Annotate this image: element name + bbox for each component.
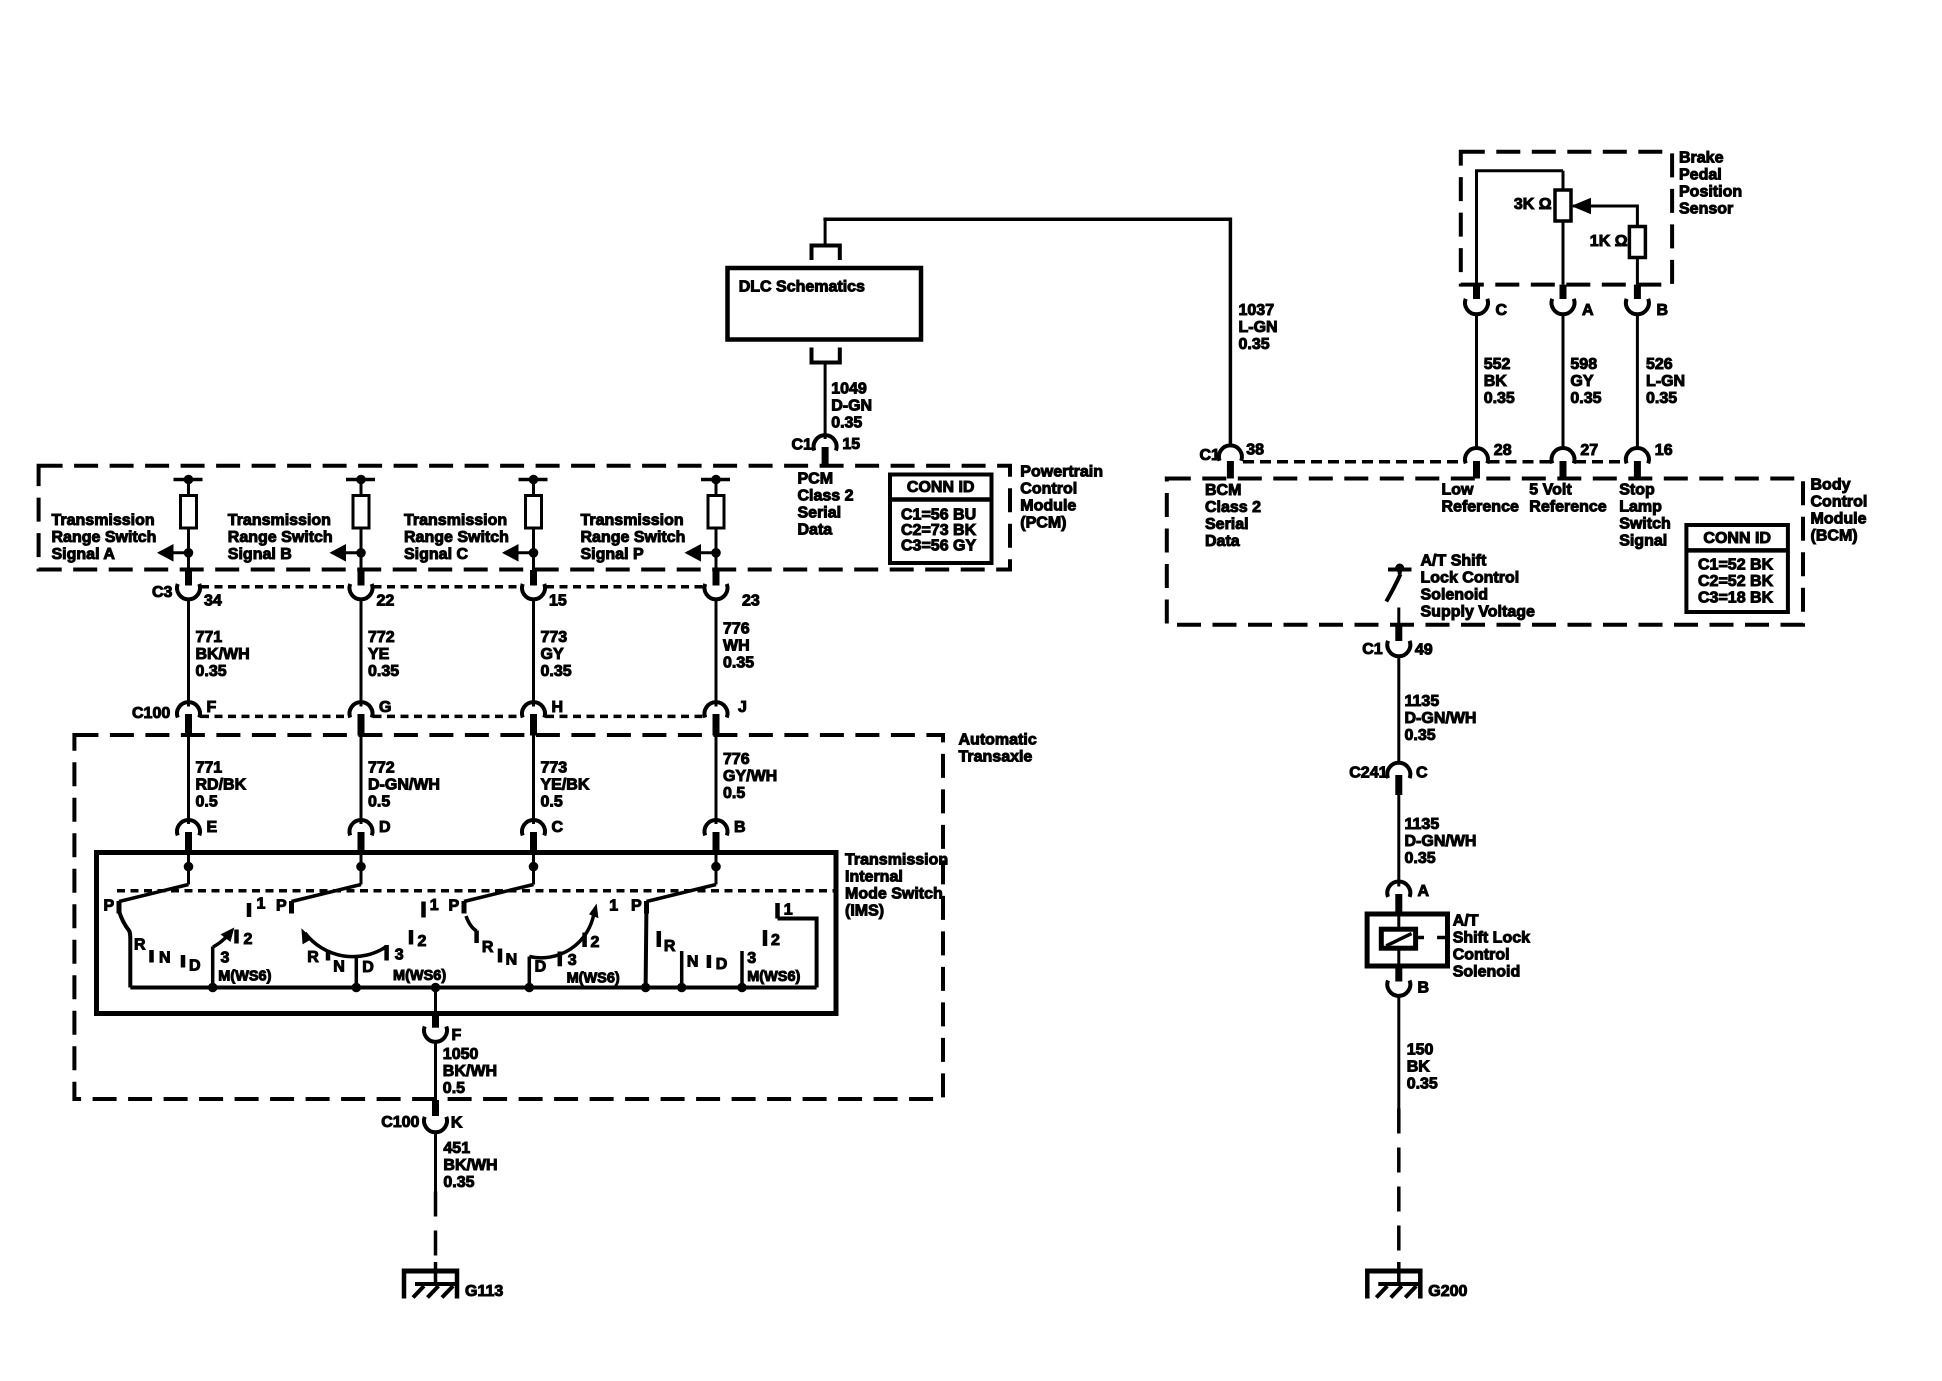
- svg-text:YE/BK: YE/BK: [541, 777, 590, 794]
- label: switch 1 contact 2: [234, 930, 239, 944]
- svg-text:Transmission: Transmission: [404, 512, 507, 529]
- svg-text:P: P: [631, 898, 642, 915]
- wire 773 YE/BK 0.5, C100 to IMS pin C: [532, 736, 535, 825]
- connector C1 pin 28 (BCM): [1465, 448, 1488, 463]
- label: switch 4 position D: [707, 955, 712, 968]
- svg-text:0.5: 0.5: [196, 794, 218, 811]
- svg-text:0.35: 0.35: [1484, 390, 1515, 407]
- svg-text:F: F: [452, 1027, 462, 1044]
- wire 451 BK/WH 0.35, C100 K to ground: [434, 1131, 437, 1192]
- svg-text:Mode Switch: Mode Switch: [845, 886, 943, 903]
- svg-text:Body: Body: [1811, 477, 1851, 494]
- svg-text:D: D: [189, 958, 201, 975]
- svg-text:Powertrain: Powertrain: [1020, 464, 1103, 481]
- svg-text:A: A: [1582, 302, 1594, 319]
- svg-text:C241: C241: [1349, 765, 1387, 782]
- svg-text:772: 772: [368, 760, 395, 777]
- resistor 3K ohm: [1555, 190, 1571, 221]
- module box: Automatic Transaxle, dashed border: [74, 735, 943, 1099]
- svg-text:Supply Voltage: Supply Voltage: [1421, 604, 1535, 621]
- svg-text:526: 526: [1646, 356, 1673, 373]
- connector C100 pin J: [705, 702, 728, 717]
- svg-text:Module: Module: [1811, 511, 1867, 528]
- svg-text:BK: BK: [1484, 373, 1508, 390]
- svg-text:(BCM): (BCM): [1811, 528, 1858, 545]
- wire 1050 BK/WH 0.5, pin F to C100 K: [434, 1041, 437, 1101]
- svg-text:3: 3: [221, 950, 230, 967]
- svg-text:M(WS6): M(WS6): [567, 970, 620, 986]
- connector C1 pin 15 (PCM): [814, 435, 837, 450]
- svg-text:C1: C1: [1199, 447, 1220, 464]
- wire 598 GY 0.35, pin A to BCM 27: [1562, 313, 1565, 449]
- node: PCM internal tie bar, signal B: [346, 478, 375, 482]
- svg-text:Range Switch: Range Switch: [404, 529, 509, 546]
- connector C1 pin 27 (BCM): [1552, 448, 1575, 463]
- svg-text:2: 2: [418, 933, 427, 950]
- switch 1 travel arc: [213, 935, 228, 947]
- connector C3 pin 22: [358, 570, 365, 586]
- svg-text:L-GN: L-GN: [1239, 319, 1278, 336]
- label: switch 2 contact 3: [384, 945, 389, 961]
- svg-text:28: 28: [1494, 442, 1512, 459]
- arrow: Transmission Range Switch Signal P (points left): [687, 551, 716, 554]
- svg-text:C1=56 BU: C1=56 BU: [901, 507, 976, 524]
- wire: bus to IMS pin F: [434, 988, 437, 1014]
- arrow: Transmission Range Switch Signal B (points left): [332, 551, 361, 554]
- svg-text:Solenoid: Solenoid: [1453, 964, 1521, 981]
- svg-text:34: 34: [204, 593, 222, 610]
- wire 776 GY/WH 0.5, C100 to IMS pin B: [715, 736, 718, 825]
- svg-text:B: B: [1418, 980, 1430, 997]
- svg-text:L-GN: L-GN: [1646, 373, 1685, 390]
- svg-text:15: 15: [842, 436, 860, 453]
- svg-text:0.5: 0.5: [723, 785, 745, 802]
- svg-text:2: 2: [244, 931, 253, 948]
- svg-text:Range Switch: Range Switch: [581, 529, 686, 546]
- svg-text:3: 3: [568, 952, 577, 969]
- wire: resistor to PCM border, signal P: [715, 528, 718, 570]
- node: PCM internal tie bar, signal A: [174, 478, 203, 482]
- junction: IMS bus to pin F: [431, 983, 440, 992]
- svg-text:Brake: Brake: [1679, 150, 1724, 167]
- svg-text:BK/WH: BK/WH: [196, 646, 250, 663]
- component box: A/T Shift Lock Control Solenoid: [1367, 914, 1447, 966]
- svg-text:1037: 1037: [1239, 302, 1275, 319]
- svg-text:3: 3: [747, 950, 756, 967]
- svg-text:DLC Schematics: DLC Schematics: [739, 279, 865, 296]
- wire 1135 D-GN/WH 0.35, BCM C1 49 to C241 C: [1397, 655, 1400, 764]
- svg-text:(IMS): (IMS): [845, 903, 884, 920]
- svg-text:C: C: [1496, 302, 1508, 319]
- wire 773 GY 0.35, C3 to C100: [532, 599, 535, 707]
- svg-text:0.5: 0.5: [443, 1080, 465, 1097]
- svg-text:Lock Control: Lock Control: [1421, 570, 1520, 587]
- svg-text:598: 598: [1570, 356, 1597, 373]
- svg-text:C1: C1: [792, 437, 813, 454]
- ground G200: [1397, 1262, 1401, 1284]
- switch: IMS contact 4 (pin B), wiper at P to bus: [712, 862, 721, 871]
- resistor: Transmission Range Switch Signal C pull-up: [526, 496, 542, 529]
- svg-text:773: 773: [541, 629, 568, 646]
- wire: PCM internal, bar to resistor P: [715, 480, 718, 497]
- svg-text:B: B: [1657, 302, 1669, 319]
- node: PCM internal tie bar, signal P: [701, 478, 730, 482]
- wire: shift lock switch to BCM border: [1397, 608, 1400, 626]
- label: switch 1 contact 1: [247, 903, 252, 917]
- svg-text:772: 772: [368, 629, 395, 646]
- svg-text:C3=18 BK: C3=18 BK: [1698, 590, 1774, 607]
- svg-text:Signal B: Signal B: [228, 546, 292, 563]
- svg-text:150: 150: [1407, 1042, 1434, 1059]
- connector C1 pin 16 (BCM): [1626, 448, 1649, 463]
- svg-text:Class 2: Class 2: [1205, 499, 1261, 516]
- connector: solenoid pin A: [1387, 881, 1410, 896]
- connector C1 pin 38 (BCM): [1219, 445, 1242, 460]
- svg-text:0.5: 0.5: [541, 794, 563, 811]
- wire: PCM internal, bar to resistor C: [532, 480, 535, 497]
- switch 3 contact line to bus: [528, 957, 532, 989]
- module box: Body Control Module (BCM), dashed border: [1167, 479, 1803, 625]
- wire 771 BK/WH 0.35, C3 to C100: [187, 599, 190, 707]
- switch: IMS contact 2 (pin D): [357, 862, 366, 871]
- svg-text:Control: Control: [1811, 494, 1868, 511]
- svg-text:Switch: Switch: [1619, 516, 1671, 533]
- IMS common bus wire: [130, 986, 816, 990]
- wire 150 BK 0.35, solenoid to ground: [1397, 995, 1400, 1109]
- resistor: Transmission Range Switch Signal A pull-up: [181, 496, 197, 529]
- svg-text:1: 1: [609, 898, 618, 915]
- svg-text:C: C: [552, 819, 564, 836]
- svg-text:Low: Low: [1442, 482, 1475, 499]
- svg-text:Reference: Reference: [1529, 499, 1606, 516]
- svg-text:CONN ID: CONN ID: [1703, 530, 1771, 547]
- svg-text:P: P: [449, 898, 460, 915]
- resistor: Transmission Range Switch Signal P pull-up: [708, 496, 724, 529]
- svg-text:Data: Data: [798, 522, 833, 539]
- svg-text:27: 27: [1580, 442, 1598, 459]
- svg-text:2: 2: [771, 932, 780, 949]
- connector C3 pin 34: [185, 570, 192, 586]
- wire 526 L-GN 0.35, pin B to BCM 16: [1636, 313, 1639, 449]
- svg-text:D: D: [535, 959, 547, 976]
- wire: dashed to ground G113: [434, 1192, 438, 1264]
- svg-text:WH: WH: [723, 637, 750, 654]
- svg-text:0.35: 0.35: [1405, 850, 1436, 867]
- svg-text:C2=73 BK: C2=73 BK: [901, 522, 977, 539]
- wire 552 BK 0.35, pin C to BCM 28: [1475, 313, 1478, 449]
- connector bracket above DLC box: [812, 246, 840, 261]
- svg-text:0.35: 0.35: [1239, 336, 1270, 353]
- svg-text:Pedal: Pedal: [1679, 167, 1722, 184]
- svg-text:N: N: [506, 952, 518, 969]
- wire: resistor to PCM border, signal C: [532, 528, 535, 570]
- wiper arrow into 3K resistor: [1573, 205, 1637, 208]
- wire 1135 D-GN/WH 0.35, C241 C to solenoid pin A: [1397, 795, 1400, 887]
- switch: A/T shift lock control, inside BCM (open): [1388, 568, 1412, 572]
- svg-text:0.35: 0.35: [723, 654, 754, 671]
- wire: 1K resistor to pin B: [1636, 258, 1639, 285]
- label: switch 2 contact 2: [409, 930, 414, 945]
- svg-text:Transmission: Transmission: [228, 512, 331, 529]
- svg-text:2: 2: [591, 934, 600, 951]
- svg-text:Shift Lock: Shift Lock: [1453, 930, 1530, 947]
- ground G113: [434, 1262, 438, 1284]
- svg-text:0.35: 0.35: [368, 663, 399, 680]
- svg-text:1: 1: [257, 896, 266, 913]
- svg-text:3K Ω: 3K Ω: [1514, 196, 1552, 213]
- IMS internal dashed line: [117, 889, 836, 893]
- svg-text:451: 451: [443, 1140, 470, 1157]
- wire: 3K resistor to pin A: [1562, 221, 1565, 285]
- svg-text:GY: GY: [1570, 373, 1593, 390]
- connector C3 pin 23: [713, 570, 720, 586]
- svg-text:5 Volt: 5 Volt: [1529, 482, 1572, 499]
- switch 3 travel arc with arrowhead: [529, 913, 594, 958]
- svg-text:Data: Data: [1205, 533, 1240, 550]
- svg-text:Sensor: Sensor: [1679, 201, 1733, 218]
- svg-text:D-GN/WH: D-GN/WH: [1405, 833, 1477, 850]
- svg-text:Lamp: Lamp: [1619, 499, 1662, 516]
- connector C100 dashed link line: [201, 715, 349, 719]
- svg-text:49: 49: [1415, 642, 1433, 659]
- svg-text:22: 22: [377, 593, 395, 610]
- connector C100 pin G: [350, 702, 373, 717]
- switch: IMS contact 3 (pin C), wiper at R: [529, 862, 538, 871]
- svg-text:Transmission: Transmission: [845, 852, 948, 869]
- svg-text:C100: C100: [381, 1114, 419, 1131]
- svg-text:M(WS6): M(WS6): [393, 968, 446, 984]
- svg-text:A: A: [1418, 883, 1430, 900]
- resistor 1K ohm: [1629, 227, 1645, 258]
- svg-text:771: 771: [196, 760, 223, 777]
- svg-text:Position: Position: [1679, 184, 1742, 201]
- component box: Transmission Internal Mode Switch (IMS): [97, 853, 837, 1014]
- module box: Brake Pedal Position Sensor, dashed border: [1461, 152, 1672, 285]
- svg-text:Transmission: Transmission: [52, 512, 155, 529]
- svg-text:1050: 1050: [443, 1046, 479, 1063]
- wire 771 RD/BK 0.5, C100 to IMS pin E: [187, 736, 190, 825]
- svg-text:0.35: 0.35: [541, 663, 572, 680]
- connector C1 pin 49 (BCM): [1395, 625, 1402, 641]
- svg-text:0.35: 0.35: [1570, 390, 1601, 407]
- svg-text:0.35: 0.35: [443, 1174, 474, 1191]
- table: BCM CONN ID: [1686, 525, 1788, 612]
- svg-text:Signal A: Signal A: [52, 546, 116, 563]
- svg-text:D-GN/WH: D-GN/WH: [1405, 710, 1477, 727]
- svg-text:C: C: [1416, 765, 1428, 782]
- svg-text:B: B: [734, 819, 746, 836]
- svg-text:Serial: Serial: [1205, 516, 1249, 533]
- connector: IMS pin E: [177, 820, 200, 835]
- svg-text:M(WS6): M(WS6): [218, 969, 271, 985]
- svg-text:Range Switch: Range Switch: [228, 529, 333, 546]
- svg-text:0.35: 0.35: [831, 415, 862, 432]
- svg-text:Signal C: Signal C: [404, 546, 468, 563]
- connector C100 pin K: [432, 1100, 439, 1116]
- svg-text:GY: GY: [541, 646, 564, 663]
- connector bracket below DLC box: [812, 348, 840, 363]
- switch 4 position N line to bus: [680, 951, 684, 988]
- connector: solenoid pin B: [1395, 966, 1402, 982]
- svg-text:F: F: [207, 699, 217, 716]
- connector: sensor pin A: [1560, 285, 1567, 299]
- svg-text:Internal: Internal: [845, 869, 903, 886]
- svg-text:Range Switch: Range Switch: [52, 529, 157, 546]
- svg-text:Automatic: Automatic: [959, 732, 1037, 749]
- svg-text:A/T Shift: A/T Shift: [1421, 553, 1487, 570]
- svg-text:773: 773: [541, 760, 568, 777]
- svg-text:P: P: [104, 898, 115, 915]
- svg-text:BK/WH: BK/WH: [443, 1157, 497, 1174]
- connector C3 dashed link line: [201, 585, 349, 589]
- svg-text:BCM: BCM: [1205, 482, 1241, 499]
- switch: IMS contact 1 (pin E), wiper at P: [184, 862, 193, 871]
- connector C100 pin H: [522, 702, 545, 717]
- svg-text:D: D: [379, 819, 391, 836]
- wire: resistor to PCM border, signal A: [187, 528, 190, 570]
- module box: Powertrain Control Module (PCM), dashed border: [39, 466, 1010, 570]
- wire: sensor internal, pin C to 3K resistor: [1475, 171, 1478, 285]
- table: PCM CONN ID: [890, 475, 992, 564]
- svg-text:CONN ID: CONN ID: [907, 479, 975, 496]
- svg-text:1135: 1135: [1405, 816, 1440, 833]
- svg-text:PCM: PCM: [798, 471, 834, 488]
- svg-text:C3=56 GY: C3=56 GY: [901, 538, 976, 555]
- wire 1049 D-GN 0.35, DLC to PCM C1 15: [824, 363, 827, 440]
- svg-text:552: 552: [1484, 356, 1511, 373]
- svg-text:Transaxle: Transaxle: [959, 749, 1033, 766]
- svg-text:15: 15: [549, 593, 567, 610]
- svg-text:D-GN: D-GN: [831, 398, 872, 415]
- switch 2 contact line to bus: [355, 957, 359, 989]
- svg-text:0.35: 0.35: [196, 663, 227, 680]
- connector C241 pin C: [1387, 763, 1410, 778]
- svg-text:1135: 1135: [1405, 693, 1440, 710]
- svg-text:D: D: [362, 959, 374, 976]
- label: switch 4 contact 2: [763, 930, 768, 946]
- svg-text:23: 23: [742, 593, 760, 610]
- svg-text:K: K: [451, 1115, 463, 1132]
- connector: IMS pin D: [350, 820, 373, 835]
- wire: PCM internal, bar to resistor B: [360, 480, 363, 497]
- svg-text:3: 3: [395, 947, 404, 964]
- svg-text:16: 16: [1655, 442, 1673, 459]
- connector: sensor pin B: [1634, 285, 1641, 299]
- svg-text:D: D: [716, 956, 728, 973]
- wire 776 WH 0.35, C3 to C100: [715, 599, 718, 707]
- connector C100 pin F: [177, 702, 200, 717]
- svg-text:P: P: [276, 898, 287, 915]
- connector: IMS pin B: [705, 820, 728, 835]
- svg-text:C2=52 BK: C2=52 BK: [1698, 573, 1774, 590]
- svg-text:Stop: Stop: [1619, 482, 1655, 499]
- connector: IMS pin F: [432, 1014, 439, 1028]
- arrow: Transmission Range Switch Signal A (points left): [160, 551, 189, 554]
- switch 4 contact 3 line to bus: [740, 951, 744, 988]
- svg-text:R: R: [482, 939, 494, 956]
- svg-text:1: 1: [784, 902, 793, 919]
- wire: resistor to PCM border, signal B: [360, 528, 363, 570]
- label: switch 3 contact 3: [558, 952, 563, 967]
- svg-text:RD/BK: RD/BK: [196, 777, 247, 794]
- svg-text:A/T: A/T: [1453, 913, 1479, 930]
- switch 2 travel arc with arrowhead: [305, 933, 387, 957]
- wire 1037 L-GN 0.35, Class 2 serial data to BCM C1 38: [823, 218, 1230, 222]
- svg-text:Module: Module: [1020, 498, 1076, 515]
- svg-text:771: 771: [196, 629, 223, 646]
- svg-text:G200: G200: [1428, 1283, 1467, 1300]
- svg-text:776: 776: [723, 620, 750, 637]
- svg-text:N: N: [159, 950, 171, 967]
- svg-text:1049: 1049: [831, 381, 867, 398]
- svg-text:BK: BK: [1407, 1059, 1431, 1076]
- svg-text:YE: YE: [368, 646, 390, 663]
- svg-text:E: E: [207, 819, 218, 836]
- svg-text:BK/WH: BK/WH: [443, 1063, 497, 1080]
- svg-text:M(WS6): M(WS6): [747, 969, 800, 985]
- svg-text:R: R: [664, 938, 676, 955]
- switch 1 contact line to bus (position M): [211, 947, 215, 988]
- label: switch 2 contact 1: [421, 902, 426, 918]
- svg-text:C1: C1: [1362, 641, 1383, 658]
- svg-text:776: 776: [723, 751, 750, 768]
- svg-text:Transmission: Transmission: [581, 512, 684, 529]
- svg-text:H: H: [552, 699, 564, 716]
- svg-text:Control: Control: [1020, 481, 1077, 498]
- svg-text:N: N: [333, 959, 345, 976]
- connector C1 dashed link line (BCM): [1243, 460, 1465, 464]
- resistor: Transmission Range Switch Signal B pull-up: [353, 496, 369, 529]
- svg-text:0.5: 0.5: [368, 794, 390, 811]
- svg-text:J: J: [738, 699, 747, 716]
- svg-text:Serial: Serial: [798, 505, 842, 522]
- wire 772 YE 0.35, C3 to C100: [360, 599, 363, 707]
- connector: IMS pin C: [522, 820, 545, 835]
- label: switch 3 contact 2: [582, 933, 587, 948]
- svg-text:38: 38: [1246, 442, 1264, 459]
- arrow: Transmission Range Switch Signal C (points left): [505, 551, 534, 554]
- switch 4 contact 1 with wire to bus: [775, 903, 780, 919]
- wire 772 D-GN/WH 0.5, C100 to IMS pin D: [360, 736, 363, 825]
- svg-text:0.35: 0.35: [1405, 727, 1436, 744]
- svg-text:Class 2: Class 2: [798, 488, 854, 505]
- node: PCM internal tie bar, signal C: [519, 478, 548, 482]
- label: switch 3 position N: [498, 949, 503, 963]
- svg-text:Signal: Signal: [1619, 533, 1667, 550]
- svg-text:C3: C3: [152, 584, 173, 601]
- svg-text:(PCM): (PCM): [1020, 515, 1066, 532]
- wire: DLC to Class 2 serial data bus: [824, 219, 827, 244]
- svg-text:0.35: 0.35: [1407, 1076, 1438, 1093]
- svg-text:C100: C100: [132, 705, 170, 722]
- svg-text:1K Ω: 1K Ω: [1590, 233, 1628, 250]
- svg-text:G113: G113: [465, 1283, 503, 1300]
- connector C3 pin 15: [530, 570, 537, 586]
- svg-text:1: 1: [430, 897, 439, 914]
- wire: PCM internal, bar to resistor A: [187, 480, 190, 497]
- svg-text:R: R: [307, 949, 319, 966]
- svg-text:0.35: 0.35: [1646, 390, 1677, 407]
- svg-text:Signal P: Signal P: [581, 546, 644, 563]
- svg-text:C1=52 BK: C1=52 BK: [1698, 557, 1774, 574]
- label: switch 4 position R: [657, 931, 662, 947]
- svg-text:R: R: [134, 937, 146, 954]
- svg-text:D-GN/WH: D-GN/WH: [368, 777, 440, 794]
- component box: DLC Schematics: [728, 268, 922, 340]
- connector: sensor pin C: [1473, 285, 1480, 299]
- svg-text:Control: Control: [1453, 947, 1510, 964]
- svg-text:N: N: [687, 954, 699, 971]
